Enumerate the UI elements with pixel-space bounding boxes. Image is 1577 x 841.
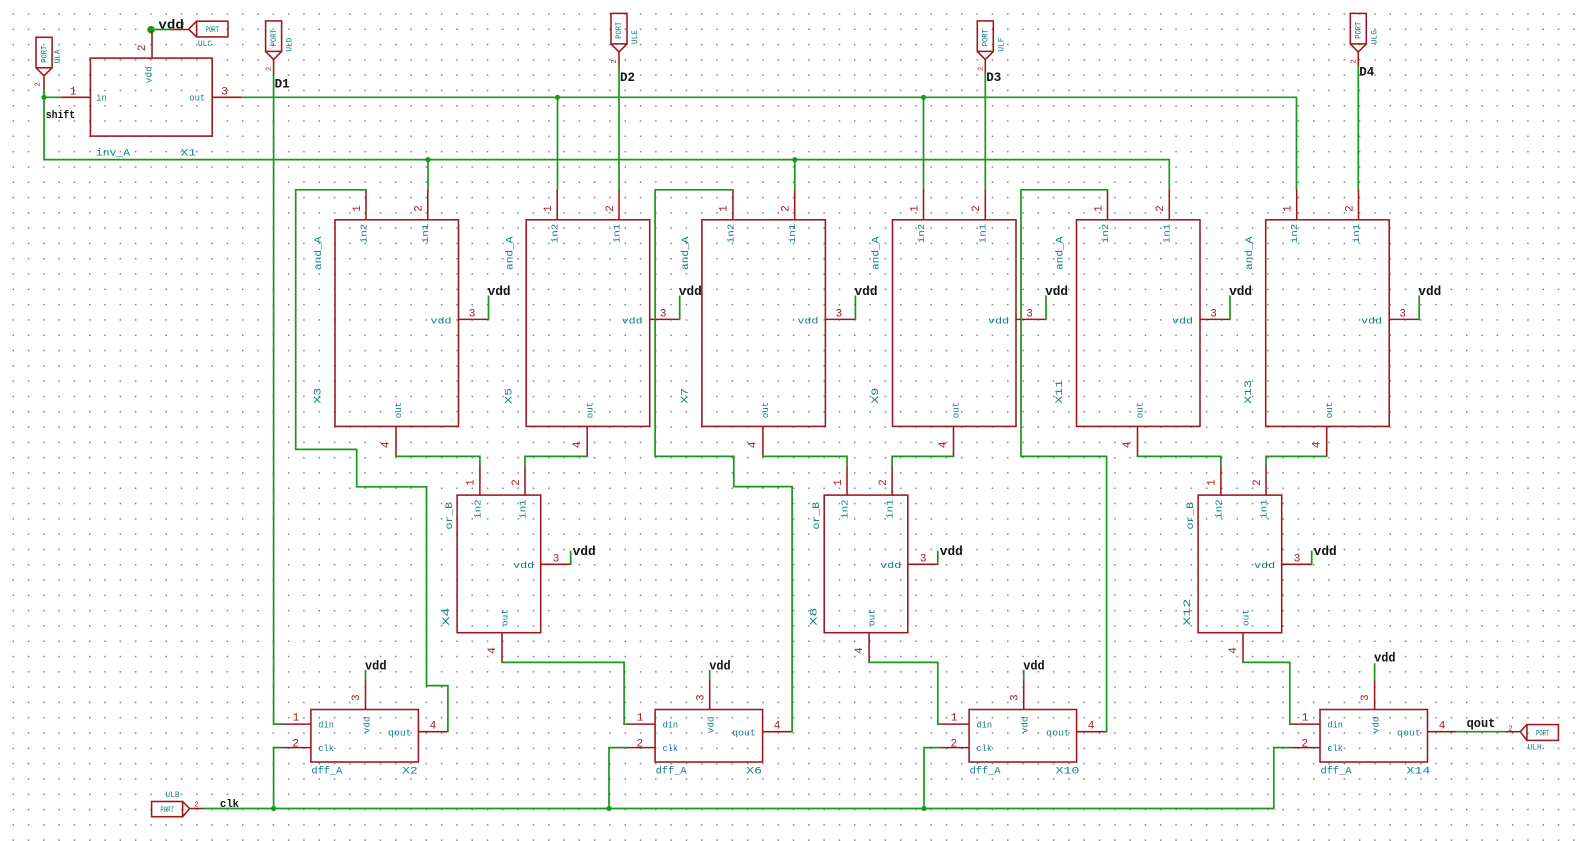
wire X5.out to X4.in1 — [525, 456, 587, 465]
D flip-flop X10 (dff_A) — [940, 659, 1107, 777]
svg-text:2: 2 — [1350, 59, 1358, 63]
svg-text:inv_A: inv_A — [96, 147, 131, 159]
svg-text:X14: X14 — [1407, 765, 1431, 777]
svg-text:vdd: vdd — [1023, 659, 1044, 673]
svg-text:D2: D2 — [620, 70, 635, 85]
wire net vdd top — [151, 29, 174, 31]
port symbol D1 (PORT ULD) — [266, 21, 295, 74]
wire vdd stub of X6 — [709, 671, 711, 680]
D flip-flop X6 (dff_A) — [626, 659, 793, 777]
wire vdd stub of X2 — [365, 671, 367, 680]
pin 1 in2 of X3 — [365, 190, 367, 220]
svg-text:clk: clk — [1327, 743, 1343, 754]
svg-text:4: 4 — [572, 441, 584, 448]
pin 3 vdd of X14 — [1374, 680, 1376, 710]
svg-text:qout: qout — [732, 727, 756, 738]
pin 4 qout of X2 — [418, 731, 448, 733]
svg-text:out: out — [867, 609, 878, 626]
svg-text:din: din — [318, 720, 334, 731]
svg-text:clk: clk — [977, 743, 993, 754]
pin 1 in2 of X8 — [846, 466, 848, 496]
svg-text:4: 4 — [487, 647, 499, 654]
wire X13.out to X12.in1 — [1266, 456, 1327, 465]
svg-text:clk: clk — [318, 743, 334, 754]
pin 2 in1 of X5 — [618, 190, 620, 220]
svg-text:4: 4 — [1311, 441, 1323, 448]
svg-text:2: 2 — [137, 44, 149, 51]
pin 1 din of X2 — [281, 723, 311, 725]
svg-text:in1: in1 — [611, 223, 622, 243]
pin 1 in2 of X5 — [556, 190, 558, 220]
pin 4 qout of X10 — [1077, 731, 1107, 733]
wire net Q2 feedback: X6.qout to X7.in2 — [655, 190, 792, 732]
svg-text:3: 3 — [920, 553, 927, 565]
svg-text:2: 2 — [1301, 738, 1308, 750]
svg-text:2: 2 — [292, 738, 299, 750]
svg-text:in2: in2 — [472, 499, 483, 519]
pin 1 din of X14 — [1291, 723, 1321, 725]
junction clk/X10 — [921, 806, 926, 811]
svg-text:in2: in2 — [550, 223, 561, 243]
pin 4 out of X8 — [868, 633, 870, 663]
wire vdd stub of X10 — [1023, 671, 1025, 680]
svg-text:1: 1 — [637, 713, 644, 725]
svg-text:vdd: vdd — [855, 285, 878, 299]
svg-text:vdd: vdd — [1418, 285, 1441, 299]
svg-text:ULH: ULH — [1528, 744, 1542, 753]
svg-text:2: 2 — [605, 205, 617, 212]
port symbol vdd (PORT ULC) — [173, 21, 228, 49]
wire net notshift: X1.out row to X13.in2 — [242, 97, 1297, 190]
svg-text:in1: in1 — [1162, 223, 1173, 243]
junction clk/X6 — [606, 806, 611, 811]
svg-text:and_A: and_A — [1244, 236, 1256, 270]
svg-text:PORT: PORT — [1536, 729, 1550, 738]
svg-text:vdd: vdd — [1314, 545, 1337, 559]
svg-text:out: out — [1135, 402, 1146, 419]
pin 2 clk of X6 — [626, 747, 656, 749]
pin 4 out of X9 — [953, 426, 955, 456]
junction shift/X3.in1 — [425, 157, 430, 162]
pin 2 in1 of X9 — [984, 190, 986, 220]
svg-text:X1: X1 — [181, 147, 196, 159]
wire X3.out to X4.in2 — [396, 456, 480, 465]
pin 3 vdd of X9 — [1016, 318, 1046, 320]
AND gate X3 (and_A) — [313, 190, 511, 457]
svg-text:4: 4 — [1228, 647, 1240, 654]
AND gate X9 (and_A) — [870, 190, 1068, 457]
svg-text:vdd: vdd — [431, 315, 452, 326]
port symbol D3 (PORT ULF) — [977, 21, 1006, 74]
svg-text:2: 2 — [511, 479, 523, 486]
svg-text:out: out — [499, 609, 510, 626]
pin 3 vdd of X12 — [1282, 563, 1312, 565]
wire riser notshift to X5.in2 — [557, 97, 559, 190]
junction clk/X2 — [271, 806, 276, 811]
wire vdd stub of X4 — [570, 552, 572, 565]
svg-text:X9: X9 — [870, 388, 882, 404]
svg-text:or_B: or_B — [1185, 502, 1197, 530]
svg-text:or_B: or_B — [811, 502, 823, 530]
pin 3 out — [212, 96, 242, 98]
pin 1 din of X10 — [940, 723, 970, 725]
svg-text:X11: X11 — [1054, 380, 1066, 404]
pin 2 in1 of X11 — [1168, 190, 1170, 220]
svg-text:in2: in2 — [725, 223, 736, 243]
pin 4 out of X12 — [1242, 633, 1244, 663]
port symbol D4 (PORT ULG) — [1350, 13, 1379, 66]
svg-text:1: 1 — [293, 713, 300, 725]
pin 3 vdd of X2 — [365, 680, 367, 710]
svg-text:vdd: vdd — [988, 315, 1009, 326]
pin 2 in1 of X4 — [524, 466, 526, 496]
pin 4 out of X13 — [1326, 426, 1328, 456]
svg-text:out: out — [760, 402, 771, 419]
svg-text:out: out — [1324, 402, 1335, 419]
inverter X1 (inv_A) — [61, 31, 242, 159]
svg-text:vdd: vdd — [679, 285, 702, 299]
svg-text:PORT: PORT — [40, 46, 49, 63]
svg-text:1: 1 — [909, 205, 921, 212]
AND gate X11 (and_A) — [1054, 190, 1252, 457]
svg-text:X8: X8 — [808, 608, 820, 626]
svg-text:ULC: ULC — [198, 40, 212, 49]
OR gate X8 (or_B) — [808, 466, 963, 663]
svg-text:2: 2 — [266, 67, 274, 71]
svg-text:2: 2 — [636, 738, 643, 750]
svg-text:and_A: and_A — [680, 236, 692, 270]
svg-text:3: 3 — [553, 553, 560, 565]
pin 3 vdd of X4 — [541, 563, 571, 565]
svg-text:qout: qout — [1467, 716, 1496, 731]
svg-text:3: 3 — [1210, 308, 1217, 320]
svg-text:PORT: PORT — [206, 26, 220, 35]
wire vdd stub of X3 — [488, 296, 490, 319]
svg-text:vdd: vdd — [143, 66, 154, 83]
svg-text:ULG: ULG — [1370, 30, 1379, 44]
svg-text:3: 3 — [1294, 553, 1301, 565]
OR gate X12 (or_B) — [1182, 466, 1337, 663]
svg-text:1: 1 — [352, 205, 364, 212]
svg-text:2: 2 — [611, 59, 619, 63]
wire vdd stub of X5 — [679, 296, 681, 319]
svg-text:2: 2 — [977, 67, 985, 71]
pin 2 in1 of X7 — [794, 190, 796, 220]
svg-text:in: in — [96, 93, 107, 104]
svg-text:ULE: ULE — [631, 30, 640, 44]
wire vdd stub of X11 — [1229, 296, 1231, 319]
wire X4.out to X6.din — [502, 662, 626, 724]
svg-text:1: 1 — [1093, 205, 1105, 212]
svg-text:PORT: PORT — [982, 29, 991, 46]
wire X9.out to X8.in1 — [892, 456, 953, 465]
wire net shift: port to X1.in and row2 — [44, 91, 61, 98]
wire X11.out to X12.in2 — [1138, 456, 1221, 465]
svg-text:4: 4 — [1122, 441, 1134, 448]
svg-text:X2: X2 — [402, 765, 418, 777]
svg-text:3: 3 — [695, 694, 707, 701]
pin 3 vdd of X6 — [709, 680, 711, 710]
pin 3 vdd of X10 — [1023, 680, 1025, 710]
svg-text:D3: D3 — [986, 70, 1001, 85]
pin 2 clk of X2 — [281, 747, 311, 749]
junction notshift/X5.in2 — [555, 95, 560, 100]
svg-text:X5: X5 — [504, 388, 516, 404]
svg-text:in1: in1 — [1258, 499, 1269, 519]
pin 2 in1 of X8 — [891, 466, 893, 496]
svg-text:in1: in1 — [420, 223, 431, 243]
svg-text:2: 2 — [1509, 726, 1513, 734]
svg-text:3: 3 — [836, 308, 843, 320]
svg-text:in2: in2 — [916, 223, 927, 243]
svg-text:1: 1 — [543, 205, 555, 212]
junction shift/X7.in1 — [792, 157, 797, 162]
svg-text:vdd: vdd — [1374, 652, 1396, 666]
wire X12.out to X14.din — [1243, 662, 1291, 724]
svg-text:dff_A: dff_A — [656, 765, 688, 777]
wire riser shift to X7.in1 — [794, 160, 796, 190]
svg-text:D4: D4 — [1359, 65, 1374, 80]
svg-text:in1: in1 — [787, 223, 798, 243]
pin 2 in1 of X3 — [427, 190, 429, 220]
pin 4 qout of X14 — [1428, 731, 1458, 733]
svg-text:vdd: vdd — [797, 315, 818, 326]
svg-text:vdd: vdd — [709, 659, 731, 673]
svg-text:and_A: and_A — [1055, 236, 1067, 270]
port symbol clk (PORT ULB) — [152, 791, 204, 817]
wire net D3: port to X9.in1 — [984, 74, 986, 189]
svg-text:3: 3 — [1360, 694, 1372, 701]
wire riser notshift to X9.in2 — [923, 97, 925, 190]
pin 3 vdd of X7 — [825, 318, 855, 320]
svg-text:vdd: vdd — [573, 545, 596, 559]
svg-text:in2: in2 — [358, 223, 369, 243]
svg-text:1: 1 — [1302, 713, 1309, 725]
svg-text:X4: X4 — [441, 608, 453, 626]
pin 4 out of X5 — [586, 426, 588, 456]
OR gate X4 (or_B) — [441, 466, 596, 663]
svg-text:2: 2 — [781, 205, 793, 212]
svg-text:2: 2 — [35, 82, 43, 86]
svg-text:1: 1 — [1207, 479, 1219, 486]
pin 3 vdd of X8 — [908, 563, 938, 565]
wire vdd stub of X13 — [1418, 296, 1420, 319]
svg-text:2: 2 — [414, 205, 426, 212]
svg-text:PORT: PORT — [160, 806, 174, 815]
svg-text:1: 1 — [951, 713, 958, 725]
svg-text:in1: in1 — [1351, 223, 1362, 243]
svg-text:3: 3 — [221, 86, 228, 98]
svg-text:1: 1 — [466, 479, 478, 486]
svg-text:2: 2 — [950, 738, 957, 750]
junction notshift/X9.in2 — [921, 95, 926, 100]
svg-text:ULB: ULB — [166, 791, 180, 800]
pin 1 in2 of X11 — [1107, 190, 1109, 220]
wire net qout: X14.qout to port — [1457, 731, 1506, 733]
svg-text:in1: in1 — [885, 499, 896, 519]
D flip-flop X14 (dff_A) — [1291, 652, 1458, 778]
pin 4 out of X4 — [501, 633, 503, 663]
wire clk branch to X6.clk — [609, 748, 626, 809]
svg-text:2: 2 — [1252, 479, 1264, 486]
pin 2 clk of X14 — [1291, 747, 1321, 749]
svg-text:X12: X12 — [1182, 599, 1194, 626]
svg-text:2: 2 — [878, 479, 890, 486]
svg-text:in2: in2 — [1213, 499, 1224, 519]
svg-text:out: out — [189, 93, 205, 104]
svg-text:dff_A: dff_A — [1321, 765, 1353, 777]
svg-text:vdd: vdd — [1254, 560, 1275, 571]
svg-text:out: out — [393, 402, 404, 419]
svg-text:vdd: vdd — [365, 659, 387, 673]
svg-text:1: 1 — [833, 479, 845, 486]
svg-text:and_A: and_A — [504, 236, 516, 270]
junction shift node — [41, 95, 46, 100]
svg-text:ULA: ULA — [54, 49, 63, 63]
svg-text:vdd: vdd — [488, 285, 511, 299]
svg-text:and_A: and_A — [871, 236, 883, 270]
wire vdd stub of X14 — [1374, 664, 1376, 680]
pin 2 vdd — [151, 31, 153, 58]
svg-text:PORT: PORT — [270, 29, 279, 46]
svg-text:3: 3 — [1009, 694, 1021, 701]
svg-text:3: 3 — [660, 308, 667, 320]
svg-text:3: 3 — [469, 308, 476, 320]
pin 3 vdd of X5 — [650, 318, 680, 320]
pin 2 in1 of X12 — [1265, 466, 1267, 496]
svg-text:in1: in1 — [517, 499, 528, 519]
pin 4 out of X7 — [762, 426, 764, 456]
svg-text:vdd: vdd — [1045, 285, 1068, 299]
port symbol D2 (PORT ULE) — [611, 13, 640, 66]
svg-text:ULF: ULF — [997, 37, 1006, 51]
svg-text:4: 4 — [430, 721, 437, 733]
svg-text:1: 1 — [70, 86, 77, 98]
svg-text:4: 4 — [854, 647, 866, 654]
svg-text:out: out — [951, 402, 962, 419]
D flip-flop X2 (dff_A) — [281, 659, 448, 777]
svg-text:vdd: vdd — [1172, 315, 1193, 326]
wire net clk bus — [204, 748, 1291, 809]
svg-text:vdd: vdd — [1229, 285, 1252, 299]
svg-text:4: 4 — [774, 721, 781, 733]
svg-text:X13: X13 — [1243, 380, 1255, 404]
svg-text:and_A: and_A — [313, 236, 325, 270]
pin 1 din of X6 — [626, 723, 656, 725]
AND gate X7 (and_A) — [679, 190, 877, 457]
svg-text:PORT: PORT — [615, 22, 624, 39]
svg-text:X10: X10 — [1056, 765, 1080, 777]
svg-text:in2: in2 — [839, 499, 850, 519]
svg-text:ULD: ULD — [286, 37, 295, 51]
svg-text:clk: clk — [663, 743, 679, 754]
junction vdd/X1 pin2 — [147, 26, 155, 34]
pin 1 in2 of X7 — [732, 190, 734, 220]
wire riser shift to X3.in1 — [427, 160, 429, 190]
pin 1 in2 of X4 — [479, 466, 481, 496]
svg-text:3: 3 — [1026, 308, 1033, 320]
svg-text:4: 4 — [1088, 721, 1095, 733]
svg-text:vdd: vdd — [361, 716, 372, 733]
wire vdd stub of X7 — [854, 296, 856, 319]
wire vdd stub of X9 — [1045, 296, 1047, 319]
port symbol shift (PORT ULA) — [35, 37, 63, 90]
svg-text:din: din — [1327, 720, 1343, 731]
pin 1 in — [61, 96, 91, 98]
svg-text:vdd: vdd — [1020, 716, 1031, 733]
svg-text:1: 1 — [1283, 205, 1295, 212]
svg-text:4: 4 — [1439, 721, 1446, 733]
pin 1 in2 of X13 — [1296, 190, 1298, 220]
svg-text:din: din — [977, 720, 993, 731]
svg-text:2: 2 — [195, 802, 199, 810]
svg-text:shift: shift — [46, 110, 75, 122]
pin 4 qout of X6 — [763, 731, 793, 733]
svg-text:dff_A: dff_A — [311, 765, 343, 777]
svg-text:2: 2 — [1155, 205, 1167, 212]
wire X7.out to X8.in2 — [763, 456, 847, 465]
pin 3 vdd of X11 — [1200, 318, 1230, 320]
svg-text:vdd: vdd — [1370, 716, 1381, 733]
svg-text:vdd: vdd — [706, 716, 717, 733]
pin 2 in1 of X13 — [1358, 190, 1360, 220]
wire net D1: port to X2.din — [274, 74, 282, 724]
svg-text:or_B: or_B — [444, 502, 456, 530]
wire net Q3 feedback: X10.qout to X11.in2 — [1021, 190, 1108, 732]
svg-text:vdd: vdd — [1361, 315, 1382, 326]
svg-text:3: 3 — [1399, 308, 1406, 320]
svg-text:PORT: PORT — [1355, 22, 1364, 39]
svg-text:qout: qout — [1046, 727, 1070, 738]
svg-text:din: din — [663, 720, 679, 731]
pin 1 in2 of X9 — [923, 190, 925, 220]
wire clk branch to X10.clk — [924, 748, 940, 809]
svg-text:in2: in2 — [1100, 223, 1111, 243]
pin 3 vdd of X13 — [1389, 318, 1419, 320]
svg-text:4: 4 — [938, 441, 950, 448]
svg-text:vdd: vdd — [513, 560, 534, 571]
pin 3 vdd of X3 — [459, 318, 489, 320]
wire clk branch to X2.clk — [274, 748, 282, 809]
wire vdd stub of X12 — [1311, 552, 1313, 565]
svg-text:X6: X6 — [746, 765, 762, 777]
wire net Q1 feedback: X2.qout to X3.in2 — [296, 190, 448, 732]
pin 4 out of X3 — [395, 426, 397, 456]
svg-text:in1: in1 — [978, 223, 989, 243]
svg-text:vdd: vdd — [940, 545, 963, 559]
svg-text:3: 3 — [351, 694, 363, 701]
svg-text:X3: X3 — [313, 388, 325, 404]
svg-text:2: 2 — [1344, 205, 1356, 212]
wire net D2: port to X5.in1 — [618, 67, 620, 190]
svg-text:out: out — [1240, 609, 1251, 626]
port symbol qout (PORT ULH) — [1506, 725, 1559, 753]
svg-text:dff_A: dff_A — [970, 765, 1002, 777]
svg-text:qout: qout — [388, 727, 412, 738]
pin 1 in2 of X12 — [1220, 466, 1222, 496]
svg-text:4: 4 — [748, 441, 760, 448]
svg-text:out: out — [584, 402, 595, 419]
svg-text:4: 4 — [381, 441, 393, 448]
wire net D4: port to X13.in1 — [1357, 67, 1359, 190]
svg-text:1: 1 — [719, 205, 731, 212]
svg-text:D1: D1 — [275, 77, 290, 92]
svg-text:vdd: vdd — [622, 315, 643, 326]
AND gate X5 (and_A) — [504, 190, 702, 457]
wire X8.out to X10.din — [869, 662, 940, 724]
svg-text:vdd: vdd — [880, 560, 901, 571]
svg-text:in2: in2 — [1289, 223, 1300, 243]
